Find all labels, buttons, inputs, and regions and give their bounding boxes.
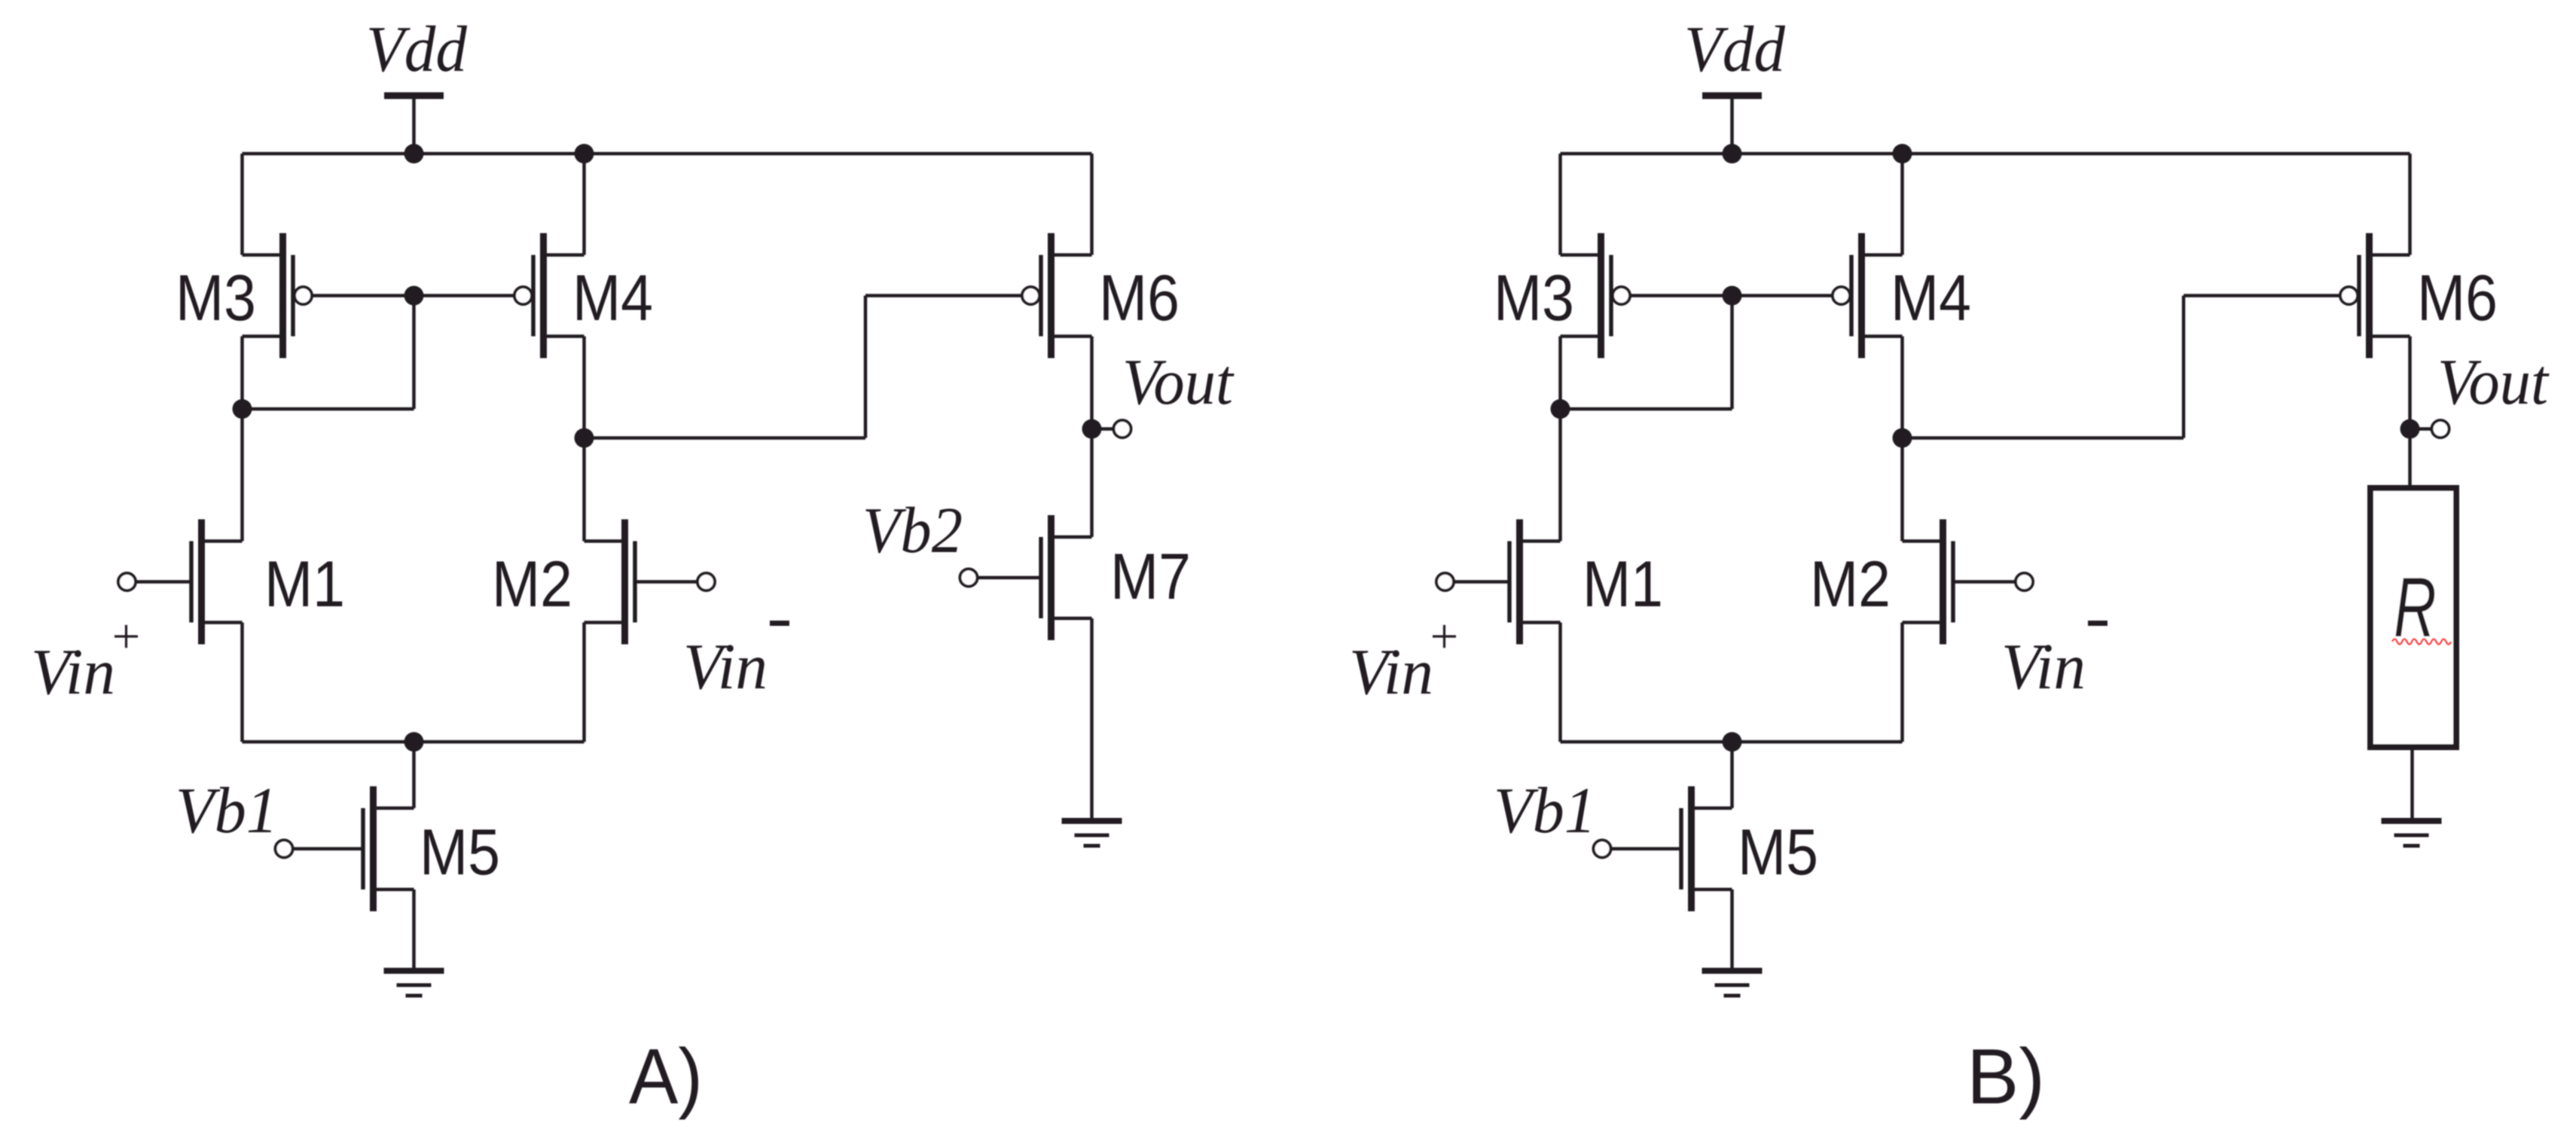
svg-text:Vout: Vout — [2437, 345, 2550, 418]
svg-text:Vin: Vin — [1349, 635, 1433, 708]
svg-text:A): A) — [629, 1033, 703, 1121]
svg-text:M6: M6 — [2417, 262, 2498, 334]
svg-text:Vin: Vin — [683, 630, 768, 703]
svg-text:M1: M1 — [1583, 548, 1663, 621]
svg-text:M3: M3 — [175, 262, 256, 334]
svg-text:M6: M6 — [1099, 262, 1180, 334]
svg-text:M1: M1 — [264, 548, 345, 621]
svg-text:M2: M2 — [1810, 548, 1891, 621]
svg-text:Vout: Vout — [1122, 345, 1235, 418]
svg-text:Vb1: Vb1 — [175, 773, 278, 847]
svg-text:M3: M3 — [1494, 262, 1574, 334]
svg-text:M4: M4 — [1891, 262, 1971, 334]
svg-text:Vin: Vin — [2001, 630, 2086, 703]
svg-text:B): B) — [1967, 1033, 2045, 1121]
svg-text:Vdd: Vdd — [366, 12, 467, 85]
svg-text:Vb1: Vb1 — [1494, 773, 1596, 847]
svg-text:Vin: Vin — [31, 635, 115, 708]
svg-text:Vdd: Vdd — [1684, 12, 1785, 85]
svg-text:M4: M4 — [572, 262, 653, 334]
svg-text:Vb2: Vb2 — [862, 493, 963, 566]
svg-text:M7: M7 — [1110, 541, 1191, 613]
svg-text:M5: M5 — [420, 816, 500, 889]
svg-text:M5: M5 — [1738, 816, 1818, 889]
svg-text:M2: M2 — [492, 548, 572, 621]
